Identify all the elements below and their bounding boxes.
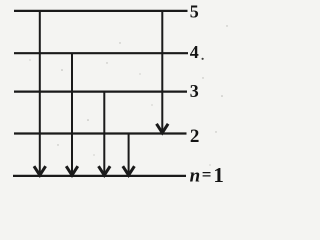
transition arrow 2 to 1 bbox=[123, 134, 135, 176]
svg-text:5: 5 bbox=[190, 2, 199, 22]
svg-text:=: = bbox=[202, 165, 212, 184]
level line n=5 bbox=[14, 10, 188, 12]
level line n=4 bbox=[14, 52, 188, 54]
svg-text:n: n bbox=[190, 165, 201, 186]
level line n=2 bbox=[14, 132, 187, 134]
transition arrow 4 to 1 bbox=[66, 53, 78, 175]
transition arrow 5 to 1 bbox=[34, 11, 46, 175]
level line n=1 bbox=[13, 175, 186, 177]
svg-text:4: 4 bbox=[190, 42, 199, 62]
level line n=3 bbox=[14, 90, 187, 92]
transition arrow 5 to 2 bbox=[157, 11, 169, 133]
svg-text:2: 2 bbox=[190, 126, 200, 147]
svg-text:3: 3 bbox=[190, 81, 199, 101]
svg-text:1: 1 bbox=[213, 163, 224, 186]
transition arrow 3 to 1 bbox=[99, 92, 111, 176]
scan speckles bbox=[29, 25, 227, 165]
paper background bbox=[0, 0, 237, 186]
